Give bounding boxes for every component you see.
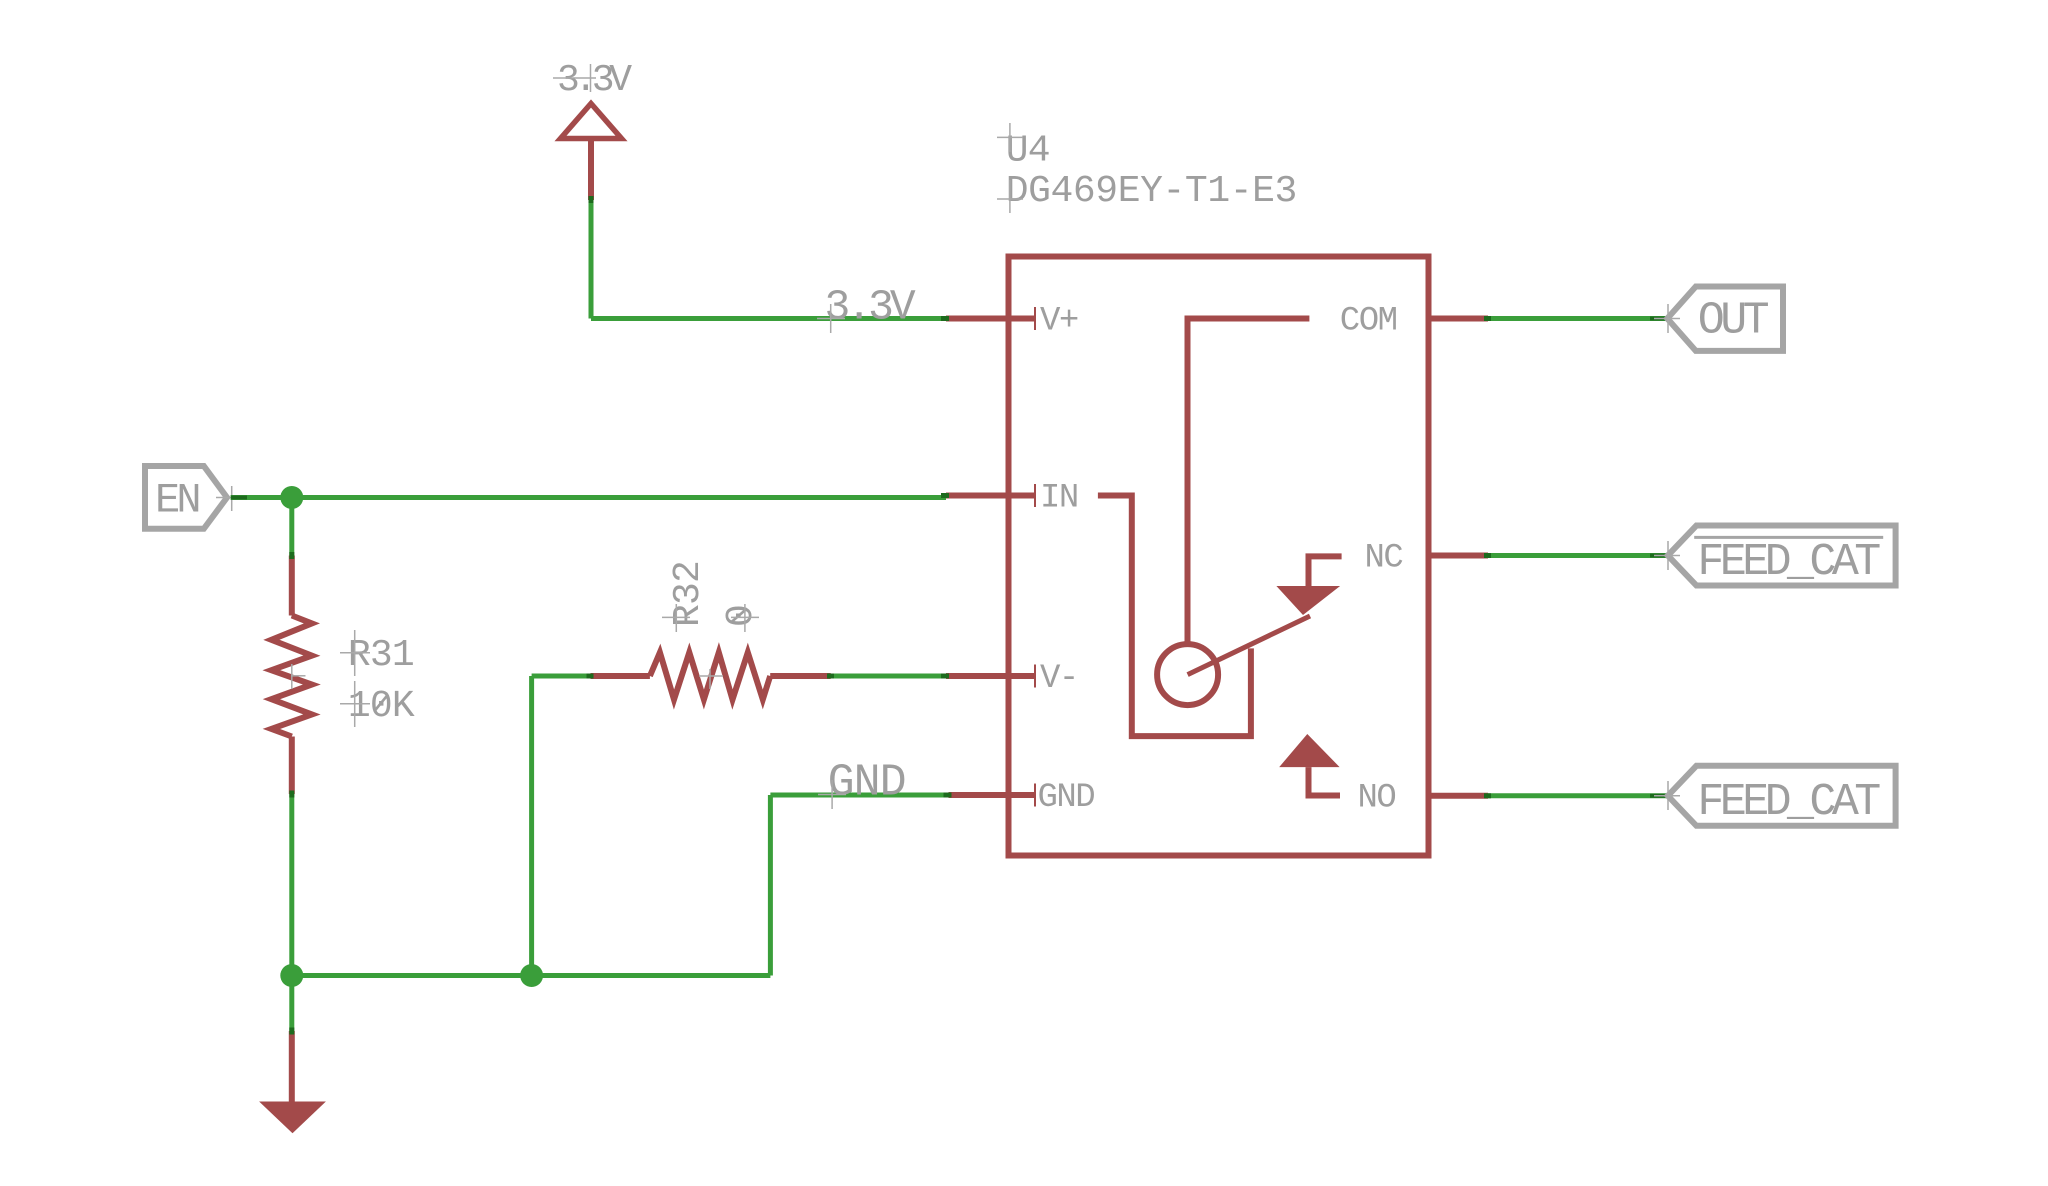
svg-text:EN: EN [155, 477, 198, 525]
wire junction down to ground symbol [289, 976, 294, 1032]
switch NO contact lines [1309, 767, 1341, 795]
wire overlap nib at IN pin [941, 493, 949, 498]
wire overlap nib at V+ pin [941, 316, 949, 321]
svg-text:R31: R31 [348, 634, 414, 677]
wire R31 bottom to junction [289, 794, 294, 976]
output flag FEED_CAT (NO) [1668, 766, 1896, 828]
wire overlap nib at NC pin [1484, 553, 1491, 558]
wire to R32 left [532, 674, 591, 679]
origin cross of value 10K [340, 681, 370, 727]
wire EN to IN [231, 495, 946, 500]
switch internal COM line [1188, 319, 1310, 645]
origin cross of flag OUT [1654, 304, 1680, 333]
svg-text:V-: V- [1040, 660, 1078, 698]
svg-text:10K: 10K [348, 685, 415, 728]
origin cross of value [997, 180, 1023, 213]
wire overlap nib at R31 top [289, 552, 294, 559]
output flag OUT [1667, 287, 1783, 351]
svg-text:COM: COM [1340, 303, 1397, 341]
switch internal IN line [1098, 496, 1251, 737]
svg-text:3.3V: 3.3V [825, 283, 916, 332]
wire overlap nib at GND pin [944, 793, 952, 798]
origin cross of flag EN [216, 486, 246, 511]
pin V- tick [1034, 665, 1036, 688]
switch NC arrowhead [1276, 586, 1340, 615]
pin NO [1429, 793, 1488, 799]
junction node EN/R31 [280, 486, 303, 509]
pin V+ tick [1034, 307, 1036, 330]
origin cross of flag FEED_CAT (NO) [1654, 781, 1680, 810]
IC U4 body [1009, 257, 1429, 856]
svg-text:FEED_CAT: FEED_CAT [1697, 777, 1880, 828]
wire 3.3V horizontal to V+ [591, 316, 946, 321]
wire GND bus horizontal [292, 973, 771, 978]
svg-text:U4: U4 [1006, 130, 1050, 173]
pin NC [1429, 553, 1488, 559]
origin cross of R32 symbol [699, 669, 723, 689]
svg-text:GND: GND [828, 758, 906, 809]
wire overlap nib at R31 bottom [289, 791, 294, 798]
wire overlap nib at V- pin [941, 674, 949, 679]
origin cross of supply label [553, 64, 596, 92]
wire overlap nib at R32 right [827, 674, 834, 679]
wire overlap at FEED_CAT2 tip [1650, 794, 1667, 798]
svg-text:V+: V+ [1040, 302, 1078, 340]
svg-text:0: 0 [720, 604, 763, 627]
junction node GND bus middle [520, 964, 543, 987]
wire overlap at EN tip [231, 496, 247, 500]
origin cross of label R31 [340, 630, 370, 676]
resistor R32 [591, 652, 831, 699]
wire junction down to R31 [289, 498, 294, 556]
wire overlap nib at NO pin [1484, 793, 1491, 798]
switch arm [1188, 616, 1310, 675]
wire 3.3V vertical [589, 200, 594, 319]
wire overlap nib at R32 left [587, 674, 594, 679]
input flag EN [145, 466, 227, 529]
resistor R31 [271, 556, 312, 795]
origin cross of label U4 [997, 123, 1023, 152]
wire overlap nib at ground stem [289, 1028, 294, 1035]
origin cross of net label 3.3V [817, 304, 845, 333]
wire R32 to V- pin [831, 674, 946, 679]
junction node GND bus left [280, 964, 303, 987]
svg-text:GND: GND [1038, 779, 1095, 817]
ground symbol [259, 1031, 326, 1133]
switch pole circle [1157, 644, 1218, 705]
wire COM to OUT [1488, 316, 1667, 321]
svg-text:OUT: OUT [1698, 296, 1769, 347]
svg-text:3.3V: 3.3V [557, 59, 632, 102]
origin cross of value 0 [731, 604, 759, 632]
svg-text:DG469EY-T1-E3: DG469EY-T1-E3 [1006, 170, 1297, 213]
pin IN [946, 493, 1035, 499]
origin cross of flag FEED_CAT (NC) [1654, 541, 1680, 570]
switch NC contact lines [1309, 556, 1342, 586]
wire overlap at OUT tip [1650, 317, 1667, 321]
pin COM [1429, 316, 1488, 322]
supply symbol 3.3V [561, 104, 622, 201]
svg-text:FEED_CAT: FEED_CAT [1697, 537, 1880, 588]
origin cross of net label GND [818, 780, 846, 809]
pin V+ [946, 316, 1035, 322]
origin cross of label R32 [662, 604, 690, 632]
pin IN tick [1034, 484, 1036, 507]
pin GND [949, 792, 1036, 798]
pin V- [946, 673, 1035, 679]
wire overlap nib at COM pin [1484, 316, 1491, 321]
output flag FEED_CAT (NC, with overbar) [1668, 526, 1896, 588]
svg-text:NC: NC [1365, 539, 1403, 577]
wire NC to FEED_CAT [1488, 553, 1668, 558]
wire GND net vertical [768, 795, 773, 976]
switch NO arrowhead [1279, 734, 1339, 767]
svg-text:NO: NO [1358, 780, 1396, 818]
pin GND tick [1034, 784, 1036, 807]
wire riser to R32 [529, 676, 534, 976]
wire GND net horizontal [770, 793, 948, 798]
wire overlap nib at supply stem [589, 196, 594, 203]
svg-text:IN: IN [1040, 479, 1078, 517]
wire NO to FEED_CAT [1488, 793, 1668, 798]
origin cross of R31 symbol [291, 664, 306, 689]
wire overlap at FEED_CAT tip [1650, 554, 1667, 558]
